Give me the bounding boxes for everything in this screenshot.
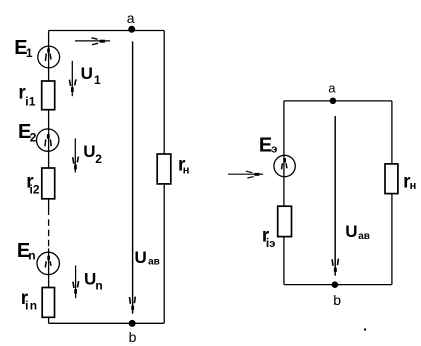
EMF source En circle	[37, 252, 59, 274]
wire left branch below rin	[48, 317, 50, 323]
resistor r_n load right circuit	[385, 164, 398, 194]
wire bottom right circuit	[284, 284, 392, 286]
EMF E2 arrow head	[45, 139, 51, 146]
svg-text:a: a	[127, 10, 135, 26]
svg-text:U: U	[81, 64, 93, 83]
svg-text:U: U	[83, 142, 95, 161]
node a left circuit	[128, 26, 135, 33]
svg-text:н: н	[410, 180, 417, 192]
svg-text:U: U	[345, 222, 357, 241]
svg-text:1: 1	[94, 73, 101, 87]
svg-text:2: 2	[33, 183, 40, 197]
equivalence arrow between circuits	[228, 171, 263, 178]
voltage arrow Un	[75, 266, 77, 299]
svg-text:1: 1	[29, 94, 36, 108]
EMF source E2 circle	[37, 129, 59, 151]
wire left branch right circuit lower	[283, 237, 285, 285]
wire right branch upper left circuit	[163, 31, 165, 155]
svg-text:э: э	[271, 144, 277, 156]
svg-text:2: 2	[30, 131, 37, 145]
resistor r_i1	[42, 81, 55, 110]
EMF E_e arrow head	[282, 163, 287, 169]
wire right branch right circuit upper	[391, 101, 393, 164]
wire bottom left circuit	[49, 322, 165, 324]
svg-text:ав: ав	[358, 231, 370, 242]
svg-text:i: i	[25, 299, 28, 313]
EMF En arrow head	[45, 261, 51, 267]
svg-text:b: b	[333, 292, 341, 308]
resistor r_in	[42, 288, 54, 318]
node a right circuit	[330, 98, 337, 105]
voltage arrow U1	[71, 61, 73, 96]
svg-text:n: n	[30, 299, 37, 313]
svg-text:э: э	[269, 238, 275, 250]
svg-text:a: a	[328, 80, 336, 95]
EMF E1 arrow head	[45, 54, 51, 62]
wire left branch right circuit upper	[283, 101, 285, 206]
stray dot bottom right	[364, 329, 366, 331]
resistor r_i2	[42, 168, 55, 199]
wire top right circuit	[284, 100, 392, 102]
wire right branch lower left circuit	[163, 184, 165, 323]
svg-text:2: 2	[95, 152, 102, 166]
EMF source E_e circle	[274, 155, 295, 176]
EMF source E1 circle	[38, 46, 60, 68]
svg-text:n: n	[95, 278, 102, 292]
wire left branch upper	[48, 31, 50, 82]
svg-text:b: b	[129, 329, 137, 345]
voltage arrow Uab left head	[130, 297, 136, 304]
svg-text:н: н	[183, 165, 190, 177]
svg-text:n: n	[28, 249, 35, 263]
voltage arrow Uab left circuit shaft	[132, 41, 134, 313]
wire top left circuit	[49, 30, 165, 32]
wire left branch through En	[48, 249, 50, 288]
svg-text:1: 1	[26, 46, 33, 60]
svg-text:ав: ав	[148, 256, 160, 267]
current arrow top of left circuit	[75, 38, 110, 45]
resistor r_ie	[278, 206, 292, 236]
wire dashed continuation	[48, 219, 50, 248]
wire left branch below ri2	[48, 199, 50, 215]
voltage arrow Uab right circuit shaft	[334, 116, 336, 276]
resistor r_n load left circuit	[157, 154, 171, 184]
voltage arrow Uab right head	[332, 259, 338, 266]
node b left circuit	[129, 320, 136, 327]
wire right branch right circuit lower	[391, 194, 393, 285]
svg-text:U: U	[135, 248, 147, 267]
wire left branch between ri1 and ri2	[48, 110, 50, 168]
voltage arrow U2	[74, 138, 76, 172]
node b right circuit	[332, 281, 339, 288]
